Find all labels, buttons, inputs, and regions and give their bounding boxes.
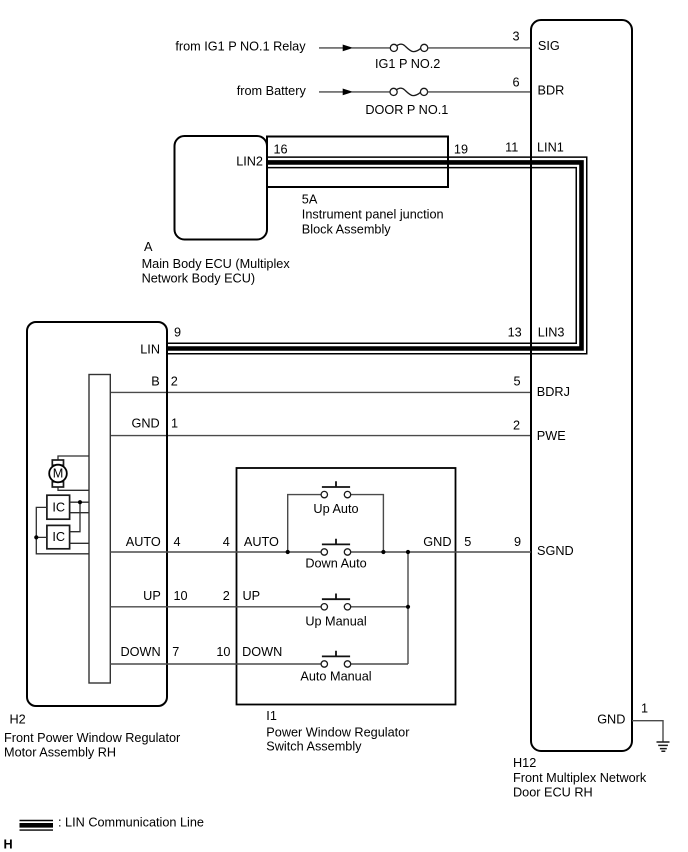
svg-text:AUTO: AUTO [126, 535, 161, 549]
svg-text:16: 16 [274, 142, 288, 156]
fuse IG1 P NO.2 [390, 44, 428, 51]
svg-text:SGND: SGND [537, 544, 574, 558]
svg-text:Up Auto: Up Auto [313, 502, 358, 516]
svg-text:Auto Manual: Auto Manual [300, 670, 371, 684]
IC wiring [36, 502, 89, 554]
wire UP(10) row [110, 606, 408, 608]
svg-text:2: 2 [171, 375, 178, 389]
svg-text:SIG: SIG [538, 39, 560, 53]
up auto branch wires [288, 495, 384, 552]
svg-text:IC: IC [52, 530, 65, 544]
svg-text:3: 3 [512, 30, 519, 44]
svg-text:10: 10 [174, 589, 188, 603]
svg-text:H: H [4, 837, 13, 851]
svg-text:5A: 5A [302, 192, 318, 206]
svg-text:10: 10 [216, 645, 230, 659]
svg-text:7: 7 [172, 645, 179, 659]
switch Up Auto [321, 481, 351, 498]
svg-text:2: 2 [513, 419, 520, 433]
svg-text:LIN: LIN [140, 342, 160, 356]
IC 1 [47, 495, 70, 519]
svg-text:I1: I1 [266, 709, 277, 723]
svg-text:AUTO: AUTO [244, 535, 279, 549]
junction dot [381, 550, 385, 554]
wire from IG1 P NO.1 Relay to fuse [319, 47, 343, 49]
I1 Power Window Regulator Switch Assembly box [237, 468, 456, 705]
junction dot [406, 550, 410, 554]
svg-text:2: 2 [223, 589, 230, 603]
wire fuse to SIG pin 3 [428, 47, 531, 49]
collector vertical wire [407, 552, 409, 664]
svg-text:DOOR P NO.1: DOOR P NO.1 [365, 103, 448, 117]
H12 Front Multiplex Network Door ECU RH box [531, 20, 632, 751]
svg-text:6: 6 [512, 75, 519, 89]
svg-text:H12: H12 [513, 756, 536, 770]
svg-text:Instrument panel junction: Instrument panel junction [302, 208, 444, 222]
LIN communication line (thick triple line from LIN2 through junction block to LIN1/LIN3 and pin 9) [167, 162, 582, 348]
svg-text:5: 5 [464, 535, 471, 549]
wire DOWN(7) row [110, 663, 408, 665]
svg-text:H2: H2 [10, 713, 26, 727]
svg-text:Power Window Regulator: Power Window Regulator [266, 725, 410, 739]
arrow row2 [343, 89, 351, 94]
arrow row1 [343, 45, 351, 50]
svg-text:LIN3: LIN3 [538, 325, 565, 339]
svg-text:11: 11 [505, 140, 518, 154]
svg-text:4: 4 [174, 535, 181, 549]
svg-text:Down Auto: Down Auto [305, 557, 366, 571]
svg-text:Up Manual: Up Manual [305, 614, 366, 628]
svg-text:BDR: BDR [538, 84, 565, 98]
wire GND(1) of H12 to ground [632, 721, 663, 742]
IC 2 [47, 525, 70, 548]
junction dot [286, 550, 290, 554]
motor M wires [58, 456, 89, 490]
svg-text:LIN1: LIN1 [537, 140, 564, 154]
fuse DOOR P NO.1 [390, 88, 428, 95]
svg-text:9: 9 [514, 535, 521, 549]
svg-text:1: 1 [641, 702, 648, 716]
svg-text:IC: IC [52, 501, 65, 515]
motor brush caps [52, 460, 63, 465]
svg-text:13: 13 [508, 325, 522, 339]
svg-text:Main Body ECU (Multiplex: Main Body ECU (Multiplex [142, 257, 291, 271]
svg-text:LIN2: LIN2 [236, 155, 263, 169]
svg-text:5: 5 [513, 375, 520, 389]
junction dot [406, 605, 410, 609]
svg-text:19: 19 [454, 142, 468, 156]
svg-text:: LIN Communication Line: : LIN Communication Line [58, 816, 204, 830]
node A: Main Body ECU box [175, 136, 268, 240]
svg-text:9: 9 [174, 326, 181, 340]
Instrument panel junction block rectangle [267, 137, 448, 188]
motor M circle [49, 465, 67, 483]
wire AUTO(4) row to SGND(9) [110, 551, 531, 553]
ground [657, 742, 670, 751]
switch Down Auto [321, 539, 351, 556]
svg-text:A: A [144, 240, 153, 254]
svg-text:GND: GND [423, 535, 451, 549]
junction dot [78, 500, 82, 504]
wire from Battery to fuse [319, 91, 343, 93]
svg-text:Block Assembly: Block Assembly [302, 222, 391, 236]
legend LIN line sample [20, 820, 54, 831]
switch Auto Manual [321, 651, 351, 668]
svg-text:Network Body ECU): Network Body ECU) [142, 271, 256, 285]
svg-text:Switch Assembly: Switch Assembly [266, 740, 362, 754]
svg-text:M: M [53, 467, 64, 481]
svg-text:GND: GND [597, 713, 625, 727]
wire GND(1) to PWE(2) [110, 435, 531, 437]
svg-text:UP: UP [143, 589, 161, 603]
wire B(2) to BDRJ(5) [110, 391, 531, 393]
svg-text:DOWN: DOWN [242, 645, 282, 659]
svg-text:4: 4 [223, 535, 230, 549]
internal connector bus bar [89, 375, 110, 684]
junction dot [34, 535, 38, 539]
svg-text:from IG1 P NO.1 Relay: from IG1 P NO.1 Relay [175, 39, 306, 53]
svg-text:IG1 P NO.2: IG1 P NO.2 [375, 57, 440, 71]
svg-text:GND: GND [131, 417, 159, 431]
svg-text:1: 1 [171, 417, 178, 431]
svg-text:Front Power Window Regulator: Front Power Window Regulator [4, 731, 181, 745]
svg-text:Motor Assembly RH: Motor Assembly RH [4, 746, 116, 760]
svg-text:UP: UP [243, 589, 261, 603]
svg-text:Door ECU RH: Door ECU RH [513, 786, 593, 800]
svg-text:PWE: PWE [537, 429, 566, 443]
svg-text:Front Multiplex Network: Front Multiplex Network [513, 771, 647, 785]
svg-text:DOWN: DOWN [121, 645, 161, 659]
svg-text:from Battery: from Battery [237, 84, 307, 98]
svg-text:BDRJ: BDRJ [537, 385, 570, 399]
H2 Front Power Window Regulator Motor Assembly RH box [27, 322, 167, 706]
switch Up Manual [321, 594, 351, 611]
wire fuse to BDR pin 6 [428, 91, 531, 93]
svg-text:B: B [151, 375, 159, 389]
